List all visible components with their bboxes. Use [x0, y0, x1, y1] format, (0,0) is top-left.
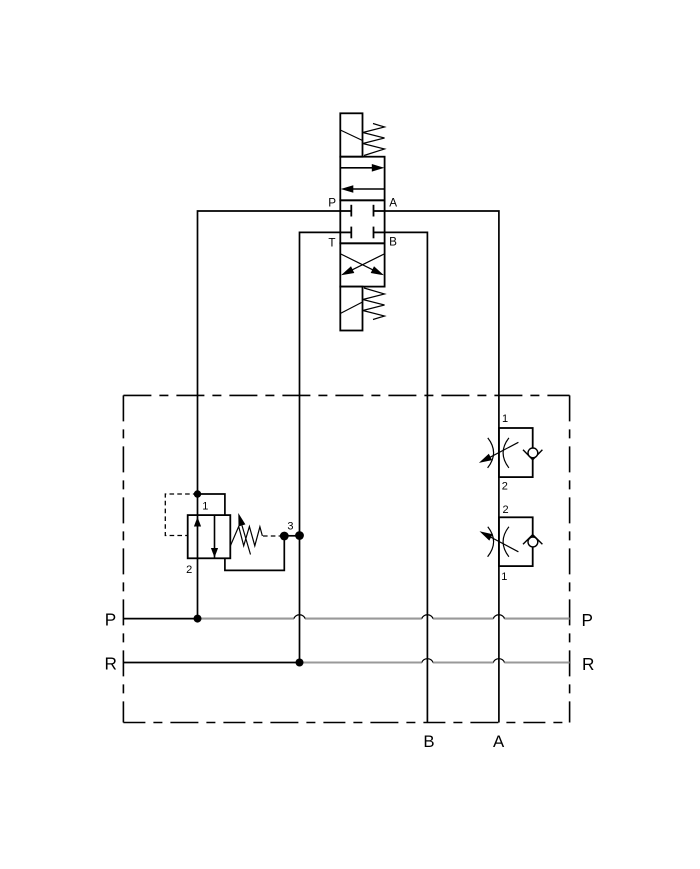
svg-text:P: P	[328, 196, 336, 209]
FC2 throttle arcs	[488, 527, 494, 557]
svg-text:A: A	[493, 732, 505, 751]
junction P line to P rail	[194, 615, 202, 623]
wire T port horizontal + vertical down to R rail	[300, 232, 341, 662]
FC2 adjustment arrow	[480, 531, 519, 552]
dashed link spring to node 3	[263, 535, 281, 537]
svg-text:A: A	[389, 196, 397, 209]
svg-text:2: 2	[502, 504, 508, 516]
svg-text:2: 2	[502, 481, 508, 493]
manifold dash-dot border left	[122, 395, 124, 722]
svg-text:2: 2	[186, 564, 192, 576]
wire node3 to T line	[284, 535, 299, 537]
svg-text:1: 1	[202, 500, 208, 512]
solenoid box bottom	[340, 287, 362, 331]
svg-text:1: 1	[501, 571, 507, 583]
svg-text:T: T	[328, 237, 335, 250]
R rail hop over A line	[493, 659, 504, 663]
relief valve top link	[198, 494, 225, 515]
svg-text:P: P	[581, 610, 592, 630]
svg-text:P: P	[105, 610, 116, 630]
flow control valve FC2 body	[499, 517, 533, 566]
FC2 check valve	[523, 535, 542, 547]
P rail gray segments	[198, 618, 570, 620]
FC1 throttle arcs	[488, 438, 494, 468]
svg-text:B: B	[389, 236, 397, 249]
svg-text:3: 3	[287, 521, 293, 533]
wire A port horizontal + vertical down to bottom border	[385, 211, 499, 723]
relief valve bottom link to node 3	[225, 536, 284, 570]
wire B port horizontal + vertical down to bottom border	[385, 232, 428, 722]
manifold dash-dot border top	[123, 394, 569, 396]
valve position box 2 (crossed arrows)	[340, 243, 384, 286]
FC1 check valve	[523, 448, 542, 460]
P rail hop over T line	[294, 615, 305, 619]
relief valve RV1: pilot dashed line	[165, 494, 197, 536]
directional valve U1: solenoid box top	[340, 113, 362, 156]
junction T line to R rail	[296, 659, 304, 667]
manifold dash-dot border bottom	[123, 722, 569, 724]
svg-text:R: R	[104, 654, 116, 674]
relief valve body	[188, 515, 231, 558]
R rail gray segments	[300, 661, 570, 663]
relief valve spring	[230, 527, 262, 546]
valve position box 1 (parallel arrows)	[340, 157, 384, 201]
R rail black segment	[123, 662, 299, 664]
manifold dash-dot border right	[569, 395, 571, 722]
FC1 adjustment arrow	[479, 442, 519, 463]
relief valve adjustment arrow	[238, 513, 250, 555]
junction node 3 left	[280, 532, 289, 541]
valve center box (blocked ports)	[340, 200, 384, 243]
R rail hop over B line	[422, 659, 433, 663]
spring bottom	[363, 288, 385, 320]
svg-text:1: 1	[502, 413, 508, 425]
svg-text:B: B	[423, 732, 434, 751]
spring top	[363, 124, 385, 156]
P rail hop over A line	[493, 615, 504, 619]
junction node 3 right on T line	[295, 531, 304, 540]
flow control valve FC1 body	[499, 428, 533, 477]
P rail hop over B line	[422, 615, 433, 619]
wire P port horizontal + vertical down to P rail	[198, 211, 341, 619]
junction node pilot (P tap)	[194, 490, 201, 497]
svg-text:R: R	[582, 654, 594, 674]
P rail black segment	[123, 618, 197, 620]
